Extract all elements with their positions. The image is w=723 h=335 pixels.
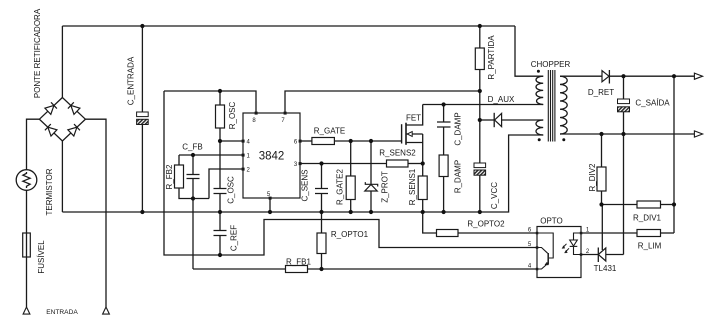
- svg-text:Z_PROT: Z_PROT: [381, 171, 390, 203]
- svg-text:C_FB: C_FB: [182, 142, 202, 151]
- svg-text:C_SENS: C_SENS: [301, 169, 310, 201]
- svg-text:R_GATE2: R_GATE2: [336, 169, 345, 205]
- svg-text:TERMISTOR: TERMISTOR: [45, 168, 54, 215]
- svg-text:3842: 3842: [259, 150, 285, 162]
- svg-text:D_RET: D_RET: [588, 88, 614, 97]
- svg-text:R_SENS1: R_SENS1: [408, 168, 417, 205]
- svg-text:R_FB2: R_FB2: [165, 164, 174, 189]
- svg-text:FUSÍVEL: FUSÍVEL: [37, 240, 46, 274]
- svg-text:FET: FET: [406, 113, 421, 122]
- svg-text:R_LIM: R_LIM: [638, 242, 662, 251]
- svg-text:R_OSC: R_OSC: [228, 101, 237, 129]
- svg-text:OPTO: OPTO: [540, 216, 563, 225]
- svg-text:R_SENS2: R_SENS2: [379, 148, 416, 157]
- svg-text:R_FB1: R_FB1: [286, 257, 311, 266]
- svg-text:C_VCC: C_VCC: [490, 182, 499, 209]
- svg-text:PONTE RETIFICADORA: PONTE RETIFICADORA: [33, 8, 42, 98]
- svg-text:R_OPTO1: R_OPTO1: [331, 230, 369, 239]
- svg-text:ENTRADA: ENTRADA: [46, 309, 78, 316]
- svg-text:C_DAMP: C_DAMP: [454, 112, 463, 145]
- svg-text:R_DIV1: R_DIV1: [633, 214, 662, 223]
- svg-text:C_OSC: C_OSC: [227, 176, 236, 204]
- svg-text:C_ENTRADA: C_ENTRADA: [127, 56, 136, 105]
- svg-text:C_REF: C_REF: [230, 225, 239, 251]
- svg-text:D_AUX: D_AUX: [488, 95, 515, 104]
- svg-text:R_OPTO2: R_OPTO2: [467, 219, 505, 228]
- svg-text:R_GATE: R_GATE: [314, 126, 345, 135]
- svg-text:C_SAÍDA: C_SAÍDA: [635, 99, 670, 108]
- svg-text:TL431: TL431: [594, 264, 617, 273]
- svg-text:R_DIV2: R_DIV2: [588, 163, 597, 192]
- svg-text:R_DAMP: R_DAMP: [454, 160, 463, 193]
- svg-text:CHOPPER: CHOPPER: [531, 60, 571, 69]
- svg-text:R_PARTIDA: R_PARTIDA: [487, 35, 496, 80]
